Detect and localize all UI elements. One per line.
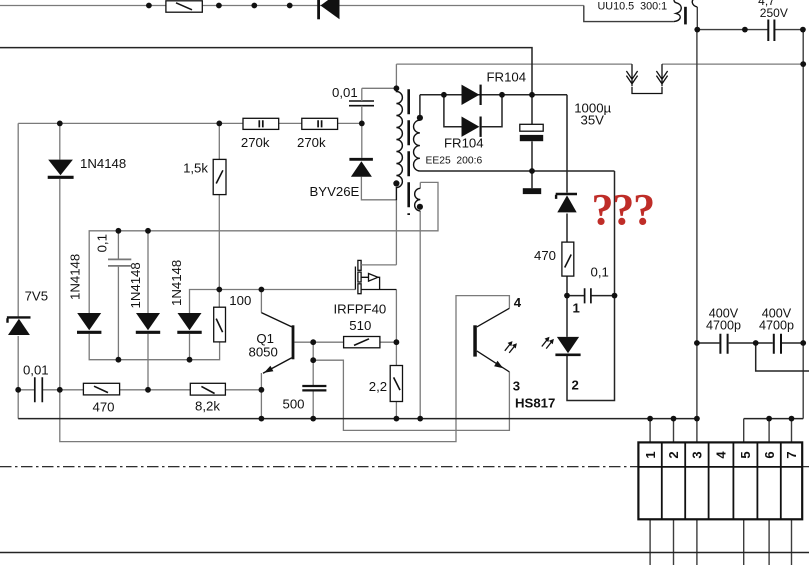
svg-text:4700p: 4700p [759,318,794,332]
svg-text:IRFPF40: IRFPF40 [334,301,387,316]
svg-text:8050: 8050 [249,345,278,360]
diode 1N4148 (top left) [48,156,127,177]
wire: left rail x=18 [17,123,19,418]
wire: BYV26E anode to primary bottom [361,177,396,200]
svg-text:FR104: FR104 [444,135,484,150]
node: junction dots (primary common and right side) [259,340,807,421]
wire: 1000u cap legs x=532 [531,95,533,189]
wire: chassis dash-dot line [0,466,809,468]
svg-text:2,2: 2,2 [369,379,387,394]
light arrows at LED [542,337,554,349]
wire: clamp line y=123 [18,122,362,124]
wire: primary top to clamp cap [362,87,397,89]
resistor 270k (second) [297,118,338,150]
light arrows at phototransistor [505,341,517,353]
svg-text:270k: 270k [297,135,326,150]
node: CT secondary junctions [694,27,806,67]
wire: Q1 base / 500 cap branch x=313 [312,342,314,418]
capacitor 4,7 250V [758,0,788,41]
zener diode 7V5 [7,289,48,336]
opto LED with pin labels [555,300,580,392]
wire: Y-caps line y=343 [697,342,803,344]
capacitor 0,1 (across LED) [585,264,609,303]
wire: bottom border line [0,552,809,554]
ground bar (output return) [523,188,541,194]
capacitor 0,01 (left bottom) [23,363,49,403]
transformer secondary winding [414,95,420,171]
svg-text:4: 4 [714,451,729,459]
svg-text:FR104: FR104 [487,69,527,84]
svg-text:1N4148: 1N4148 [169,260,184,306]
resistor 270k (first) [241,118,279,150]
diode FR104 (upper) [462,69,527,105]
wire: MOSFET drain and source verticals [395,200,397,342]
capacitor 400V 4700p (second) [759,306,794,353]
wire: right vertical x=803 [802,30,804,419]
wire: bias line y=390 [18,389,261,391]
wire: 0,1 cap branch x=118 [117,231,119,360]
capacitor 400V 4700p (first) [706,306,741,353]
svg-text:0,01: 0,01 [23,363,49,378]
svg-text:4700p: 4700p [706,318,741,332]
wire: opto LED loop [567,171,615,401]
resistor 470 (bottom) [83,383,119,414]
MOSFET IRFPF40 [334,260,397,316]
svg-text:4: 4 [514,295,522,310]
transformer auxiliary winding [415,182,421,211]
wire: rail x=60 with opto collector return [60,123,510,441]
wire: diode2 branch x=148 [147,231,149,390]
svg-text:6: 6 [762,451,777,458]
wire: base node to opto emitter return [313,360,509,430]
svg-text:UU10.5 300:1: UU10.5 300:1 [598,1,668,13]
svg-text:5: 5 [738,451,753,458]
svg-text:35V: 35V [581,112,605,127]
svg-text:7: 7 [784,451,799,458]
connector: mains plug symbol (two arrows into socket) [626,64,667,93]
capacitor 1000u 35V [520,101,612,142]
diode (top line, cropped) [317,0,339,19]
wire: Y-cap midpoint exit [756,343,809,371]
diode 1N4148 (bias a) [68,254,102,333]
wire: mains line to plug, primary top feed [396,64,803,88]
transformer core [407,89,410,215]
wire: 2,2 resistor legs x=396 [395,342,397,418]
svg-text:HS817: HS817 [515,396,555,411]
svg-text:BYV26E: BYV26E [310,184,360,199]
svg-text:100: 100 [229,293,251,308]
resistor (top line, value cropped) [166,1,202,12]
resistor 100 [214,293,252,342]
resistor 1,5k [183,159,226,194]
wire: connector terminal bottom leads [650,519,791,565]
wire: connector terminal top leads [650,419,791,443]
wire: output plus line y=47.6 [0,48,532,95]
wire: diode bottoms line y=360 [89,334,219,360]
diode FR104 (lower) [444,117,484,151]
svg-text:1N4148: 1N4148 [128,262,143,308]
zener diode (unknown) [556,194,577,212]
svg-text:2: 2 [572,378,579,393]
wire: secondary ground line y=171 [420,170,615,172]
resistor 470 (feedback) [534,242,574,276]
transistor Q1 8050 [249,313,295,374]
svg-text:1N4148: 1N4148 [68,254,83,300]
diode 1N4148 (bias c) [169,260,202,333]
svg-text:1: 1 [573,300,580,315]
capacitor 0,01 (clamp) [332,85,374,158]
transformer EE25 200:6 primary winding [396,88,402,200]
wire: aux supply line y=231 [89,182,438,313]
wire: right vertical x=697 [696,30,698,443]
svg-text:3: 3 [513,378,520,393]
svg-text:250V: 250V [760,6,788,20]
svg-text:0,01: 0,01 [332,85,358,100]
wire: base to 510 line y=342 [294,341,396,343]
current transformer UU10.5 300:1 [584,0,698,24]
resistor 2,2 [369,366,403,402]
svg-text:0,1: 0,1 [591,264,609,279]
resistor 8,2k [190,383,225,413]
wire: 1,5k branch x=219 [218,123,220,307]
wire: Q1 collector and emitter legs [260,290,262,419]
node: junction dots (clamp and control nets) [15,85,617,392]
wire: aux winding bottom x=420 [419,211,421,419]
capacitor 0,1 (bias filter) [95,234,132,266]
resistor 510 [344,318,380,348]
node: junction dots on mains top line [146,3,293,9]
svg-text:8,2k: 8,2k [195,399,220,414]
svg-text:3: 3 [690,451,705,458]
svg-text:EE25 200:6: EE25 200:6 [426,156,483,167]
wire: mains top line [0,5,584,7]
node: winding phase dots [393,115,423,210]
svg-text:470: 470 [534,248,556,263]
diode 1N4148 (bias b) [128,262,160,332]
svg-text:0,1: 0,1 [95,234,110,252]
opto phototransistor HS817 [473,295,555,411]
svg-text:???: ??? [592,185,654,234]
svg-text:2: 2 [666,451,681,458]
svg-text:1: 1 [643,451,658,458]
wire: zener feedback branch x=567 [567,95,615,296]
svg-text:470: 470 [92,400,114,415]
diode BYV26E [310,159,373,199]
wire: gate line y=289.5 [190,290,356,314]
svg-text:1,5k: 1,5k [183,160,208,175]
connector: 7-pin terminal block [638,442,802,519]
wire: primary common line y=418.6 [18,418,803,420]
svg-text:510: 510 [349,318,371,333]
wire: secondary rectifier line y=94.8 [420,95,567,127]
wire: current transformer secondary line y=29.6 [697,7,803,30]
svg-text:1N4148: 1N4148 [80,156,126,171]
svg-text:270k: 270k [241,135,270,150]
capacitor 500 [283,386,327,411]
svg-text:500: 500 [283,396,305,411]
svg-text:7V5: 7V5 [25,289,48,304]
